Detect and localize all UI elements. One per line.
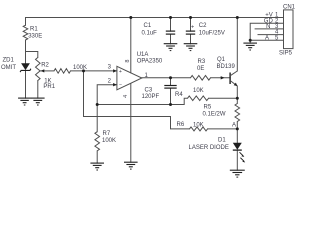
svg-text:330E: 330E (28, 34, 42, 40)
wire: +V top rail (26, 17, 284, 19)
node: CN1 ground chain junction (249, 39, 252, 42)
node: pin2 feedback junction at R7 (96, 103, 99, 106)
wire: R4 right lead to Q1 emitter node (209, 97, 238, 99)
svg-text:R3: R3 (198, 59, 206, 65)
wire: C2 top lead from rail (190, 18, 192, 32)
resistor R7 100K (95, 132, 100, 151)
transistor Q1 BD139 (229, 73, 231, 85)
svg-text:R1: R1 (30, 27, 38, 33)
ground (op-amp pin 4) (124, 161, 138, 163)
resistor R3 0E (191, 76, 211, 81)
svg-text:120PF: 120PF (142, 94, 160, 100)
connector CN1 SIP5 (284, 10, 294, 49)
wire: R5 bottom to laser diode D1 (node A) (236, 122, 238, 143)
svg-text:C2: C2 (199, 23, 207, 29)
svg-text:−: − (119, 82, 122, 88)
svg-text:100K: 100K (73, 65, 87, 71)
node: C3 top on output (169, 76, 172, 79)
node: rail junction at op-amp pin 8 (129, 16, 132, 19)
resistor R2 100K (54, 69, 71, 74)
svg-text:OPA2350: OPA2350 (137, 59, 163, 65)
wire: R1 top lead from rail (25, 18, 27, 26)
ground (C2) (184, 43, 198, 45)
wire: CN1 pin 3 stub N (255, 28, 283, 30)
svg-text:C3: C3 (145, 87, 153, 93)
wire: R1 bottom to zener ZD1 anode (25, 40, 27, 63)
preset PR1 1K (with R2 label) (36, 58, 41, 81)
resistor R5 0.1E/2W (235, 104, 240, 122)
svg-text:CN1: CN1 (283, 5, 296, 11)
svg-text:4: 4 (123, 95, 129, 98)
wire: op-amp pin 2 feedback corner (97, 85, 117, 105)
wire: CN1 pin 4 stub (258, 34, 284, 36)
svg-text:8: 8 (125, 59, 131, 62)
wire: C3 top lead from output (170, 78, 172, 86)
svg-text:10K: 10K (193, 88, 204, 94)
svg-text:N: N (266, 24, 270, 30)
wire: R7 bottom to ground (96, 151, 98, 163)
svg-text:10K: 10K (193, 123, 204, 129)
svg-text:0E: 0E (197, 66, 204, 72)
laser diode D1 (233, 143, 242, 150)
svg-text:+: + (191, 24, 194, 30)
op-amp U1A OPA2350 (117, 66, 142, 90)
zener diode ZD1 (OMIT) (21, 63, 30, 70)
wire: CN1 pin 1 stub (+V) (237, 17, 283, 19)
svg-text:U1A: U1A (137, 52, 149, 58)
svg-text:+: + (119, 69, 122, 75)
svg-text:C1: C1 (144, 23, 152, 29)
capacitor C3 120PF (164, 85, 176, 87)
svg-text:OMIT: OMIT (1, 65, 16, 71)
svg-text:0.1uF: 0.1uF (142, 31, 158, 37)
wire: op-amp pin 4 down to ground (130, 84, 132, 163)
wire: node J1 down and across to R6 (84, 71, 190, 129)
wire: D1 cathode to ground (236, 151, 238, 170)
node: rail junction at C2 (189, 16, 192, 19)
svg-text:BD139: BD139 (217, 64, 236, 70)
wire: Q1 emitter down to R5 (236, 86, 238, 104)
ground (ZD1) (18, 97, 31, 99)
ground (CN1 GD) (243, 42, 257, 44)
wire: C2 bottom lead to ground (190, 34, 192, 44)
svg-text:0.1E/2W: 0.1E/2W (203, 111, 226, 117)
wire: branch to preset PR1 (26, 52, 38, 58)
node: Q1 emitter / R4 / R5 junction (236, 97, 239, 100)
wire: C3 bottom lead to feedback node (170, 88, 172, 104)
ground (PR1) (31, 97, 45, 99)
svg-text:ZD1: ZD1 (3, 58, 15, 64)
wire: PR1 bottom to ground (37, 81, 39, 99)
ground (C1) (164, 43, 178, 45)
wire: Q1 collector up to rail (236, 18, 238, 72)
svg-text:10uF/25V: 10uF/25V (199, 31, 225, 37)
wire: C1 bottom lead to ground (170, 34, 172, 44)
node: C3 bottom / R4 junction (169, 103, 172, 106)
wire: op-amp pin 8 supply from rail (130, 18, 132, 73)
resistor R6 10K (190, 127, 208, 131)
wire: pin2 node across to C3/R4 node (97, 104, 170, 106)
wire: R3 to Q1 base (211, 77, 231, 79)
wire: ZD1 cathode to ground (25, 71, 27, 98)
wire: R6 right lead to node A (208, 128, 238, 130)
svg-text:Q1: Q1 (217, 57, 226, 63)
node: rail junction at C1 (169, 16, 172, 19)
wire: CN1 pin 2 GD to ground chain (250, 23, 283, 43)
svg-text:A: A (265, 35, 269, 41)
wire: R2 to op-amp pin 3 (node J1) (71, 70, 117, 72)
D1 emission arrows (240, 152, 244, 156)
node A: R5 / R6 / D1 junction (236, 127, 239, 130)
wire: PR1 wiper to R2 (41, 70, 55, 72)
svg-text:LASER DIODE: LASER DIODE (189, 145, 229, 151)
wire: R4 left lead step (171, 98, 188, 104)
svg-text:R7: R7 (103, 131, 111, 137)
svg-text:PR1: PR1 (43, 84, 55, 90)
svg-text:R2: R2 (41, 63, 49, 69)
svg-text:R5: R5 (204, 105, 212, 111)
svg-text:R6: R6 (177, 122, 185, 128)
svg-text:A: A (232, 123, 236, 129)
wire: pin2 node down to R7 (96, 105, 98, 132)
arrow into Q1 base (221, 76, 225, 79)
svg-text:SIP5: SIP5 (279, 50, 293, 56)
node: rail junction at Q1 collector (236, 16, 239, 19)
pin 3 arrow and label (113, 69, 117, 72)
wire: CN1 pin 5 stub A (250, 39, 283, 41)
resistor R1 330E (23, 25, 28, 40)
capacitor C2 10uF/25V (electrolytic) (186, 30, 195, 32)
svg-text:D1: D1 (218, 137, 226, 143)
capacitor C1 0.1uF (166, 30, 175, 32)
pin 2 arrow and label (113, 83, 117, 86)
wire: op-amp output to R3 (142, 77, 191, 79)
ground (D1 cathode) (230, 169, 245, 171)
ground (R7) (90, 162, 104, 164)
node J1: wiper/100K to +input and feedback (82, 69, 85, 72)
resistor R4 10K (188, 96, 209, 101)
svg-text:100K: 100K (102, 138, 116, 144)
wire: C1 top lead from rail (170, 18, 172, 32)
svg-text:R4: R4 (175, 92, 183, 98)
